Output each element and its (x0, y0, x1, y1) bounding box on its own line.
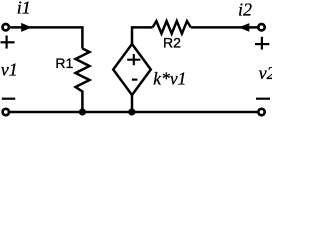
node junction R1/bottom rail (79, 108, 86, 115)
wire top-left (10, 27, 83, 48)
node junction source/bottom rail (128, 108, 135, 115)
arrow i2 direction (239, 23, 250, 32)
svg-text:i1: i1 (17, 0, 31, 18)
terminal port2 top (258, 24, 264, 30)
svg-text:v2: v2 (259, 63, 272, 83)
plus sign port2 (255, 37, 269, 50)
svg-text:i2: i2 (238, 0, 252, 20)
dependent source U1 diamond (113, 44, 151, 95)
svg-text:k*v1: k*v1 (153, 68, 186, 88)
minus sign port2 (256, 98, 270, 100)
wire source bottom drop (131, 95, 134, 112)
wire riser from source top (132, 27, 153, 44)
wire bottom rail (10, 111, 258, 114)
wire top-right (191, 26, 258, 29)
resistor R2 (153, 21, 191, 33)
minus sign inside source (132, 78, 138, 80)
terminal port1 top (2, 24, 8, 30)
minus sign port1 (2, 98, 15, 100)
svg-text:v1: v1 (1, 59, 18, 79)
terminal port2 bottom (258, 109, 264, 115)
plus sign port1 (1, 36, 15, 49)
terminal port1 bottom (3, 109, 9, 115)
svg-text:R2: R2 (163, 34, 181, 50)
plus sign inside source (127, 54, 140, 65)
svg-text:R1: R1 (55, 55, 73, 71)
arrow i1 direction (21, 23, 32, 32)
resistor R1 (76, 49, 90, 113)
